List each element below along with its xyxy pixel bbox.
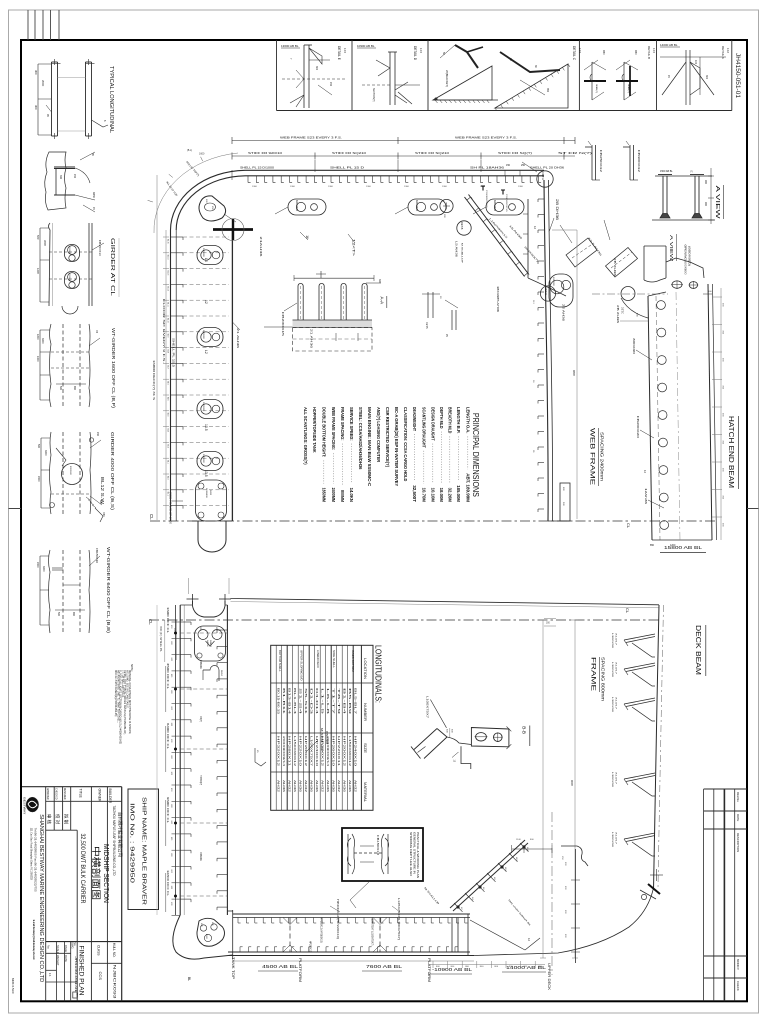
svg-text:HP240X10: HP240X10 xyxy=(315,736,319,767)
svg-text:MATERIAL:CCSA WHERE NOT OTHERW: MATERIAL:CCSA WHERE NOT OTHERWISE IS SHO… xyxy=(128,670,131,734)
svg-text:13.5: 13.5 xyxy=(204,424,208,431)
svg-text:DETAIL E: DETAIL E xyxy=(337,46,341,60)
svg-text:MRK 0.5mF: MRK 0.5mF xyxy=(11,978,15,994)
svg-text:PLATFORM: PLATFORM xyxy=(427,958,431,982)
svg-text:28 DH36: 28 DH36 xyxy=(555,199,559,220)
svg-text:AH36: AH36 xyxy=(298,780,302,793)
svg-text:NJBCK093: NJBCK093 xyxy=(112,965,117,1000)
svg-text:3000: 3000 xyxy=(42,566,45,572)
svg-text:DETAIL D: DETAIL D xyxy=(413,46,417,61)
svg-text:PAGE: PAGE xyxy=(64,945,68,952)
svg-text:1500 AB BL: 1500 AB BL xyxy=(660,170,673,173)
svg-text:650: 650 xyxy=(72,612,75,617)
svg-text:DECK BEAM: DECK BEAM xyxy=(694,625,701,675)
svg-text:500X800: 500X800 xyxy=(202,454,204,464)
svg-text:PLATFORM: PLATFORM xyxy=(298,958,302,982)
svg-text:B1-B4: B1-B4 xyxy=(342,688,346,716)
svg-text:(600X800): (600X800) xyxy=(688,246,690,266)
svg-text:BL1-BL4: BL1-BL4 xyxy=(293,688,297,715)
svg-text:WT-GIRDER 6400 OFF CL (B,B): WT-GIRDER 6400 OFF CL (B,B) xyxy=(105,547,111,633)
svg-text:MIDSHIP SECTION: MIDSHIP SECTION xyxy=(102,844,111,903)
svg-text:150: 150 xyxy=(506,164,511,167)
svg-text:X13/17: X13/17 xyxy=(615,772,617,785)
svg-text:2000: 2000 xyxy=(37,476,40,482)
svg-text:校 对: 校 对 xyxy=(54,814,61,825)
svg-text:BL: BL xyxy=(187,977,191,981)
svg-text:500X800: 500X800 xyxy=(202,248,204,258)
svg-text:600X800: 600X800 xyxy=(552,277,554,287)
svg-text:150: 150 xyxy=(73,174,76,179)
svg-text:1:10: 1:10 xyxy=(726,48,730,54)
svg-text:LENGTH O.A.: LENGTH O.A. xyxy=(466,407,471,433)
svg-text:TAIZHOU MAPLE LEAF SHIPBUILDIN: TAIZHOU MAPLE LEAF SHIPBUILDING CO.,LTD xyxy=(112,806,116,877)
svg-text:L5 AH36: L5 AH36 xyxy=(455,241,458,258)
svg-text:12: 12 xyxy=(643,470,647,474)
svg-text:X13/17: X13/17 xyxy=(615,697,617,710)
svg-text:审 核: 审 核 xyxy=(46,814,53,825)
svg-text:L300X90: L300X90 xyxy=(611,662,613,678)
svg-text:HP220X10: HP220X10 xyxy=(298,736,302,767)
svg-text:1300: 1300 xyxy=(290,186,296,188)
svg-text:LONGITUDINALS:: LONGITUDINALS: xyxy=(374,645,383,703)
svg-text:AH36: AH36 xyxy=(331,780,335,793)
svg-text:AH32: AH32 xyxy=(276,780,280,793)
svg-text:STIFF FR SQ210: STIFF FR SQ210 xyxy=(332,151,367,155)
svg-text:7600 AB BL: 7600 AB BL xyxy=(366,964,403,969)
svg-text:DET.B: DET.B xyxy=(460,222,464,230)
svg-text:AH32: AH32 xyxy=(320,780,324,793)
svg-text:L100X75X7: L100X75X7 xyxy=(309,736,313,767)
svg-text:中横剖面图: 中横剖面图 xyxy=(91,846,102,900)
svg-text:DETAIL C: DETAIL C xyxy=(572,46,576,61)
svg-text:ABT. 189.99M: ABT. 189.99M xyxy=(466,473,471,502)
svg-text:E-mail:bestway@mail.bestway-sh: E-mail:bestway@mail.bestway-sh.com xyxy=(32,920,36,960)
svg-text:SPACING 800mm: SPACING 800mm xyxy=(601,657,606,701)
svg-text:R450: R450 xyxy=(92,192,95,199)
svg-text:32,500 DWT BULK CARRIER: 32,500 DWT BULK CARRIER xyxy=(79,834,85,905)
svg-text:1200: 1200 xyxy=(36,334,39,340)
svg-text:GIRDER AT CL: GIRDER AT CL xyxy=(109,238,115,296)
svg-text:B0.15-B0.15: B0.15-B0.15 xyxy=(276,688,280,715)
svg-text:CL: CL xyxy=(625,608,630,614)
svg-text:DETAIL B: DETAIL B xyxy=(647,46,651,59)
svg-text:13.5: 13.5 xyxy=(204,470,208,477)
svg-text:1300: 1300 xyxy=(328,186,334,188)
svg-text:X13/17: X13/17 xyxy=(615,662,617,675)
svg-text:L125X75X7 (L100X75X7): L125X75X7 (L100X75X7) xyxy=(370,918,374,946)
svg-text:300: 300 xyxy=(315,66,318,71)
svg-text:SPACING 2400mm: SPACING 2400mm xyxy=(600,432,605,481)
svg-text:TITLE: TITLE xyxy=(78,789,82,799)
svg-text:OWNER: OWNER xyxy=(97,789,101,803)
svg-text:14000 AB BL: 14000 AB BL xyxy=(660,43,678,47)
svg-text:D4-D14: D4-D14 xyxy=(315,688,319,716)
svg-text:500: 500 xyxy=(59,386,62,391)
svg-text:REV.No: REV.No xyxy=(736,792,740,802)
svg-text:1300: 1300 xyxy=(518,186,524,188)
svg-text:32.26M: 32.26M xyxy=(448,488,453,503)
svg-text:S5-S11: S5-S11 xyxy=(304,688,308,716)
svg-text:2400MM: 2400MM xyxy=(331,488,336,503)
svg-text:500X800: 500X800 xyxy=(68,273,70,282)
svg-text:APPROVED: APPROVED xyxy=(46,788,50,800)
svg-text:DET.5: DET.5 xyxy=(425,322,428,329)
svg-text:No.: No. xyxy=(73,942,77,946)
svg-text:18X1985 AH36: 18X1985 AH36 xyxy=(496,286,499,313)
svg-text:SIDE(?): SIDE(?) xyxy=(209,640,211,647)
svg-text:FB300X11: FB300X11 xyxy=(485,190,487,209)
svg-text:2B 2H36: 2B 2H36 xyxy=(616,305,620,324)
svg-text:HATCH: HATCH xyxy=(206,640,209,647)
svg-text:NOTE:: NOTE: xyxy=(130,664,133,672)
svg-text:10900 AB BL: 10900 AB BL xyxy=(357,44,375,48)
svg-text:FRAME SPACING:: FRAME SPACING: xyxy=(340,407,345,441)
svg-text:1300: 1300 xyxy=(252,186,258,188)
svg-text:BUILDER: BUILDER xyxy=(108,789,112,804)
svg-text:CCS: CCS xyxy=(98,972,103,981)
svg-text:SH PL 18AH36: SH PL 18AH36 xyxy=(470,166,505,170)
svg-text:AH36: AH36 xyxy=(342,780,346,793)
svg-text:AH36: AH36 xyxy=(282,780,286,793)
svg-text:CLASSIFICATION: CCSA CARGO HOL: CLASSIFICATION: CCSA CARGO HOLD xyxy=(403,407,408,481)
svg-text:10.70M: 10.70M xyxy=(422,488,427,503)
svg-text:(B.L): (B.L) xyxy=(187,149,192,152)
svg-text:FRAME: FRAME xyxy=(590,657,597,691)
svg-text:650: 650 xyxy=(73,386,76,391)
svg-text:SHIP NAME: MAPLE BRAVER: SHIP NAME: MAPLE BRAVER xyxy=(141,797,147,905)
svg-text:1300: 1300 xyxy=(442,186,448,188)
svg-text:12: 12 xyxy=(204,300,208,304)
svg-text:9600: 9600 xyxy=(570,780,574,786)
svg-text:DESCRIPTION: DESCRIPTION xyxy=(736,833,740,852)
svg-text:FB150X10: FB150X10 xyxy=(376,835,379,856)
svg-text:D1-D3: D1-D3 xyxy=(309,688,313,716)
svg-text:150: 150 xyxy=(329,82,332,87)
svg-text:21AH36: 21AH36 xyxy=(259,237,263,258)
svg-text:AND(?) LOADING COMPUTER: AND(?) LOADING COMPUTER xyxy=(376,407,381,463)
svg-text:STIFF FR SQ(?): STIFF FR SQ(?) xyxy=(498,151,532,155)
svg-text:10.10M: 10.10M xyxy=(431,488,436,503)
svg-text:FB80X6: FB80X6 xyxy=(199,660,202,669)
svg-text:600X1200: 600X1200 xyxy=(415,200,418,212)
svg-text:UPPER SLOPING B/D: UPPER SLOPING B/D xyxy=(300,650,304,681)
svg-text:L1-L5: L1-L5 xyxy=(320,688,324,716)
svg-text:TYPICAL LONGITUDINAL: TYPICAL LONGITUDINAL xyxy=(108,66,114,133)
svg-text:FB250X12: FB250X12 xyxy=(599,150,603,173)
svg-text:600X1200: 600X1200 xyxy=(295,200,298,212)
svg-text:300: 300 xyxy=(34,70,38,75)
svg-text:BREADTH MLD: BREADTH MLD xyxy=(448,407,453,433)
svg-text:WEB FRAME S23 EVERY 3 F.S.: WEB FRAME S23 EVERY 3 F.S. xyxy=(280,136,342,140)
svg-text:UPPER DECK: UPPER DECK xyxy=(547,963,551,991)
svg-text:X13/17: X13/17 xyxy=(615,633,617,646)
svg-text:1000: 1000 xyxy=(36,356,39,362)
svg-text:DATE: DATE xyxy=(64,955,68,962)
svg-text:CHECKED: CHECKED xyxy=(55,788,59,800)
svg-text:FB150: FB150 xyxy=(220,670,222,677)
svg-text:WEB FRAME SPACING:: WEB FRAME SPACING: xyxy=(331,407,336,451)
svg-text:AH36: AH36 xyxy=(315,780,319,793)
svg-text:WEIGHT: WEIGHT xyxy=(56,955,60,966)
svg-text:300: 300 xyxy=(705,75,708,80)
svg-text:NUMBER: NUMBER xyxy=(363,703,367,722)
svg-text:2B 2H36: 2B 2H36 xyxy=(613,258,617,277)
svg-text:1:15: 1:15 xyxy=(652,48,656,54)
svg-text:300 (F) SHELL PL: 300 (F) SHELL PL xyxy=(159,626,162,653)
svg-text:DET.A: DET.A xyxy=(541,173,545,181)
svg-text:HULL NO.: HULL NO. xyxy=(112,943,116,958)
svg-text:L2: L2 xyxy=(204,350,208,354)
svg-text:3000: 3000 xyxy=(44,450,47,456)
svg-text:3000: 3000 xyxy=(43,240,47,246)
svg-text:BL5-BL7: BL5-BL7 xyxy=(353,688,357,715)
svg-text:FB(?): FB(?) xyxy=(199,716,202,722)
svg-text:DOUBLE BOTTOM HEIGHT:: DOUBLE BOTTOM HEIGHT: xyxy=(322,407,327,458)
svg-text:HP200X12 (HP220X10): HP200X12 (HP220X10) xyxy=(336,899,339,939)
svg-text:1200: 1200 xyxy=(36,268,40,274)
svg-text:HATCH END BEAM: HATCH END BEAM xyxy=(727,416,734,488)
svg-text:500: 500 xyxy=(57,612,60,617)
svg-text:185.00M: 185.00M xyxy=(456,485,461,502)
svg-text:L125X75X7(L100X75X7): L125X75X7(L100X75X7) xyxy=(397,898,400,940)
svg-text:拟 制: 拟 制 xyxy=(62,814,69,825)
svg-text:FB200X20: FB200X20 xyxy=(636,416,639,439)
svg-text:FB150X10: FB150X10 xyxy=(98,240,102,257)
svg-text:2000: 2000 xyxy=(36,562,39,568)
svg-text:DET.C: DET.C xyxy=(621,307,624,314)
svg-text:B-B: B-B xyxy=(522,726,527,734)
svg-text:X13/17: X13/17 xyxy=(615,832,617,845)
svg-text:SEAM(?): SEAM(?) xyxy=(595,84,598,93)
svg-text:BL12 S.W: BL12 S.W xyxy=(100,477,105,504)
svg-text:AH36: AH36 xyxy=(309,780,313,793)
svg-text:L150X90X12: L150X90X12 xyxy=(293,736,297,767)
svg-text:L300X90: L300X90 xyxy=(611,832,613,848)
svg-text:FB80X6: FB80X6 xyxy=(199,852,202,861)
svg-text:R50: R50 xyxy=(602,50,605,55)
svg-text:16800 DECK(?) 31 S: 16800 DECK(?) 31 S xyxy=(152,360,155,401)
svg-text:WEB FRAME: WEB FRAME xyxy=(589,428,596,485)
svg-text:500X800: 500X800 xyxy=(202,402,204,412)
svg-text:WEB FRAME S23 EVERY 3 F.S.: WEB FRAME S23 EVERY 3 F.S. xyxy=(455,136,517,140)
svg-text:DESIGN DRAUGHT: DESIGN DRAUGHT xyxy=(431,407,436,441)
svg-text:Tel:86-21-64828800 Fax:86-21-: Tel:86-21-64828800 Fax:86-21-64828522/75… xyxy=(33,828,37,892)
svg-text:14.0KN: 14.0KN xyxy=(349,488,354,502)
svg-text:INNER BOTTOM: INNER BOTTOM xyxy=(351,650,355,672)
svg-text:台州枫叶船业有限公司: 台州枫叶船业有限公司 xyxy=(116,812,123,857)
svg-text:SHELL PL 15.5: SHELL PL 15.5 xyxy=(172,338,176,368)
svg-text:DESIGNED: DESIGNED xyxy=(63,788,67,800)
svg-text:500: 500 xyxy=(37,444,40,449)
svg-text:4500 OFF CL: 4500 OFF CL xyxy=(166,663,170,689)
svg-text:SCANTLING DRAUGHT: SCANTLING DRAUGHT xyxy=(422,407,427,448)
svg-text:L300X90: L300X90 xyxy=(611,697,613,713)
svg-text:BESTWAY: BESTWAY xyxy=(23,797,27,814)
svg-text:HP240X10: HP240X10 xyxy=(353,736,357,767)
svg-text:AH32: AH32 xyxy=(337,780,341,793)
svg-text:PRACTICAL & WORKING PLAN: PRACTICAL & WORKING PLAN xyxy=(416,832,419,878)
svg-text:FB100X11: FB100X11 xyxy=(505,194,507,213)
svg-text:L300X90: L300X90 xyxy=(611,772,613,788)
svg-text:AH36: AH36 xyxy=(293,780,297,793)
svg-text:R50: R50 xyxy=(634,50,637,55)
svg-text:SHELL PL 15 D: SHELL PL 15 D xyxy=(330,166,364,170)
svg-text:R400: R400 xyxy=(209,490,211,496)
svg-text:500X800: 500X800 xyxy=(202,330,204,340)
svg-text:850: 850 xyxy=(650,544,655,547)
svg-text:DEPTH MLD: DEPTH MLD xyxy=(439,407,444,429)
svg-text:HP200X12: HP200X12 xyxy=(309,941,312,953)
svg-text:1:15: 1:15 xyxy=(578,48,582,54)
svg-text:L150X90X12: L150X90X12 xyxy=(348,736,352,767)
svg-text:800X600: 800X600 xyxy=(69,466,71,476)
svg-text:1600: 1600 xyxy=(199,153,205,156)
svg-text:GIRDER 4000 OFF CL (B,S): GIRDER 4000 OFF CL (B,S) xyxy=(110,432,115,511)
svg-text:FB300X12: FB300X12 xyxy=(637,150,641,173)
svg-text:SECTION(?): SECTION(?) xyxy=(372,88,375,102)
svg-text:4500 AB BL: 4500 AB BL xyxy=(262,964,299,969)
svg-text:111 Cao Bao Road Shanghai Chin: 111 Cao Bao Road Shanghai China P.C:2002… xyxy=(30,828,34,880)
svg-text:18.00M: 18.00M xyxy=(439,488,444,503)
svg-text:CL: CL xyxy=(626,523,631,529)
svg-text:300X90: 300X90 xyxy=(632,338,635,355)
svg-text:HP220X11: HP220X11 xyxy=(337,736,341,767)
svg-text:FB150X10: FB150X10 xyxy=(95,548,98,564)
svg-text:A VIEW: A VIEW xyxy=(714,186,720,219)
svg-text:AH32: AH32 xyxy=(287,780,291,793)
svg-text:DATE: DATE xyxy=(736,814,740,821)
svg-text:TANK TOP: TANK TOP xyxy=(231,957,235,979)
svg-text:B5-B9: B5-B9 xyxy=(348,688,352,716)
svg-text:FB: FB xyxy=(95,330,98,333)
svg-text:200X90X9/14: 200X90X9/14 xyxy=(326,736,330,767)
svg-text:1200: 1200 xyxy=(670,544,676,547)
svg-text:HP200(?): HP200(?) xyxy=(199,775,202,785)
svg-text:B13-B14: B13-B14 xyxy=(287,688,291,715)
svg-text:FB200X15: FB200X15 xyxy=(281,312,285,337)
svg-text:3000: 3000 xyxy=(41,338,44,344)
svg-text:1:1: 1:1 xyxy=(48,973,52,977)
svg-text:JH4150-051-01: JH4150-051-01 xyxy=(74,956,78,992)
svg-text:32,500T: 32,500T xyxy=(412,485,417,502)
svg-text:AH36: AH36 xyxy=(326,780,330,793)
svg-text:WEB FRAME SP 2400: WEB FRAME SP 2400 xyxy=(169,492,172,525)
svg-text:SHELL PL 15 D/1000: SHELL PL 15 D/1000 xyxy=(240,166,274,170)
svg-text:WT-GIRDER 1600 OFF CL (B,P): WT-GIRDER 1600 OFF CL (B,P) xyxy=(111,328,116,409)
svg-text:HP200X12: HP200X12 xyxy=(304,736,308,767)
svg-text:HP200X12: HP200X12 xyxy=(342,736,346,767)
svg-text:200X90X9/14: 200X90X9/14 xyxy=(282,736,286,767)
svg-text:L100X75X7: L100X75X7 xyxy=(426,696,429,719)
svg-text:250: 250 xyxy=(521,164,526,167)
svg-text:LOCATION: LOCATION xyxy=(363,658,367,680)
svg-text:M.SCALLOP: M.SCALLOP xyxy=(461,243,464,264)
svg-text:6400 OFF CL: 6400 OFF CL xyxy=(166,723,170,749)
svg-text:ALL SCANTLINGS: GROSS(?): ALL SCANTLINGS: GROSS(?) xyxy=(303,407,308,465)
svg-text:CHECK: CHECK xyxy=(736,981,740,991)
svg-text:B1-B11: B1-B11 xyxy=(282,688,286,716)
svg-text:1600 OFF CL: 1600 OFF CL xyxy=(166,607,170,633)
svg-text:HP280X12 (HP260X10): HP280X12 (HP260X10) xyxy=(320,918,324,943)
svg-text:GENERAL STRUCTURE IN: GENERAL STRUCTURE IN xyxy=(413,832,416,874)
svg-text:L6-L8: L6-L8 xyxy=(326,688,330,716)
svg-text:9600 OFF CL: 9600 OFF CL xyxy=(166,797,170,823)
svg-text:300: 300 xyxy=(34,105,38,110)
svg-text:BOTTOM SHELL: BOTTOM SHELL xyxy=(278,650,282,672)
svg-text:IMO No. : 9429950: IMO No. : 9429950 xyxy=(129,803,135,883)
svg-text:(?): (?) xyxy=(690,171,693,173)
svg-text:HP320X12: HP320X12 xyxy=(320,736,324,767)
svg-text:MODIFY: MODIFY xyxy=(736,959,740,970)
svg-text:9800: 9800 xyxy=(572,370,576,376)
svg-text:900: 900 xyxy=(704,180,707,185)
svg-text:STIFF FR 920/10: STIFF FR 920/10 xyxy=(248,151,283,155)
svg-text:340: 340 xyxy=(59,175,62,180)
svg-text:T1-T7: T1-T7 xyxy=(331,688,335,716)
svg-text:12<T>: 12<T> xyxy=(351,239,355,256)
svg-text:800MM: 800MM xyxy=(340,490,345,502)
svg-text:1300: 1300 xyxy=(404,186,410,188)
svg-text:13600 AB BL: 13600 AB BL xyxy=(281,44,299,48)
svg-text:21 AH36: 21 AH36 xyxy=(310,329,314,349)
svg-text:SIZE: SIZE xyxy=(363,743,367,753)
svg-text:1400X800: 1400X800 xyxy=(205,488,207,498)
svg-text:ST FR N(?): ST FR N(?) xyxy=(558,151,592,155)
svg-text:1:15: 1:15 xyxy=(343,48,347,54)
svg-text:SERVICE SPEED:: SERVICE SPEED: xyxy=(349,407,354,441)
svg-text:HP280X11: HP280X11 xyxy=(287,736,291,767)
svg-text:DEADWEIGHT: DEADWEIGHT xyxy=(412,407,417,431)
svg-text:SIDE SHELL: SIDE SHELL xyxy=(332,650,336,668)
svg-text:BC-A GRAB(20) ESP IN-WATER SUR: BC-A GRAB(20) ESP IN-WATER SURVEY xyxy=(394,407,399,486)
svg-text:MATERIAL: MATERIAL xyxy=(363,782,367,802)
svg-text:A VIEW: A VIEW xyxy=(669,235,674,262)
svg-text:1300: 1300 xyxy=(366,186,372,188)
svg-text:300: 300 xyxy=(378,279,381,284)
svg-text:AH36: AH36 xyxy=(348,780,352,793)
svg-text:LOWER DECK: LOWER DECK xyxy=(316,650,320,668)
svg-text:HP260X10: HP260X10 xyxy=(331,736,335,767)
svg-text:1:15: 1:15 xyxy=(419,48,423,54)
svg-text:AH32: AH32 xyxy=(304,780,308,793)
svg-text:R50: R50 xyxy=(102,512,105,517)
svg-text:S1-S4: S1-S4 xyxy=(298,688,302,716)
svg-text:2000: 2000 xyxy=(41,80,45,87)
svg-text:MAIN ENGINE: MAN B&W 5S50MC-C: MAIN ENGINE: MAN B&W 5S50MC-C xyxy=(367,407,372,486)
svg-text:SCALE: SCALE xyxy=(56,945,60,954)
svg-text:12800 OFF CL: 12800 OFF CL xyxy=(166,870,170,896)
svg-text:500X800: 500X800 xyxy=(68,246,70,255)
svg-text:HOPPER/TOPSIDE TANK: HOPPER/TOPSIDE TANK xyxy=(312,407,317,453)
svg-text:OPENING 600X800: OPENING 600X800 xyxy=(684,245,686,276)
svg-text:AH32: AH32 xyxy=(353,780,357,793)
svg-text:500: 500 xyxy=(36,235,40,240)
svg-text:PRINCIPAL DIMENSIONS: PRINCIPAL DIMENSIONS xyxy=(471,413,481,497)
svg-text:100: 100 xyxy=(694,60,697,65)
svg-text:HP320X12: HP320X12 xyxy=(276,736,280,767)
svg-text:T8-T9: T8-T9 xyxy=(337,688,341,716)
svg-text:1140: 1140 xyxy=(516,839,521,841)
svg-text:900: 900 xyxy=(704,202,707,207)
svg-text:150: 150 xyxy=(96,432,99,437)
svg-text:CL: CL xyxy=(149,514,154,520)
svg-text:20(BRACKET): 20(BRACKET) xyxy=(445,70,449,87)
svg-text:SHANGHAI BESTWAY MARINE ENGINE: SHANGHAI BESTWAY MARINE ENGINEERING DESI… xyxy=(38,814,44,982)
svg-text:12Ah36: 12Ah36 xyxy=(644,488,647,505)
svg-text:SHELL PL 20 DH36: SHELL PL 20 DH36 xyxy=(530,166,565,170)
svg-text:1850MM: 1850MM xyxy=(322,488,327,503)
svg-text:STIFF FR SQ210: STIFF FR SQ210 xyxy=(415,151,450,155)
